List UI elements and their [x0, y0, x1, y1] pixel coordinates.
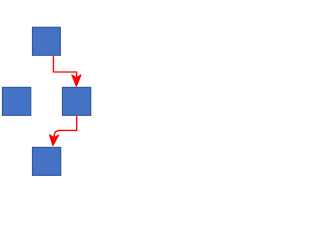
arrowhead of connector 1 (classic, pointing down into S3): [72, 75, 81, 87]
wire connector 1: S1 bottom to S3 top (elbow down-right-down): [53, 56, 76, 78]
block S3 (middle-right square): [62, 87, 90, 115]
block S2 (middle-left square): [2, 87, 30, 115]
wire connector 2: S3 bottom to S4 top (elbow down-left-down): [54, 116, 76, 137]
arrowhead of connector 2 (classic, pointing down into S4): [49, 135, 59, 146]
block S4 (bottom square): [32, 147, 60, 175]
block S1 (top square): [32, 27, 60, 55]
